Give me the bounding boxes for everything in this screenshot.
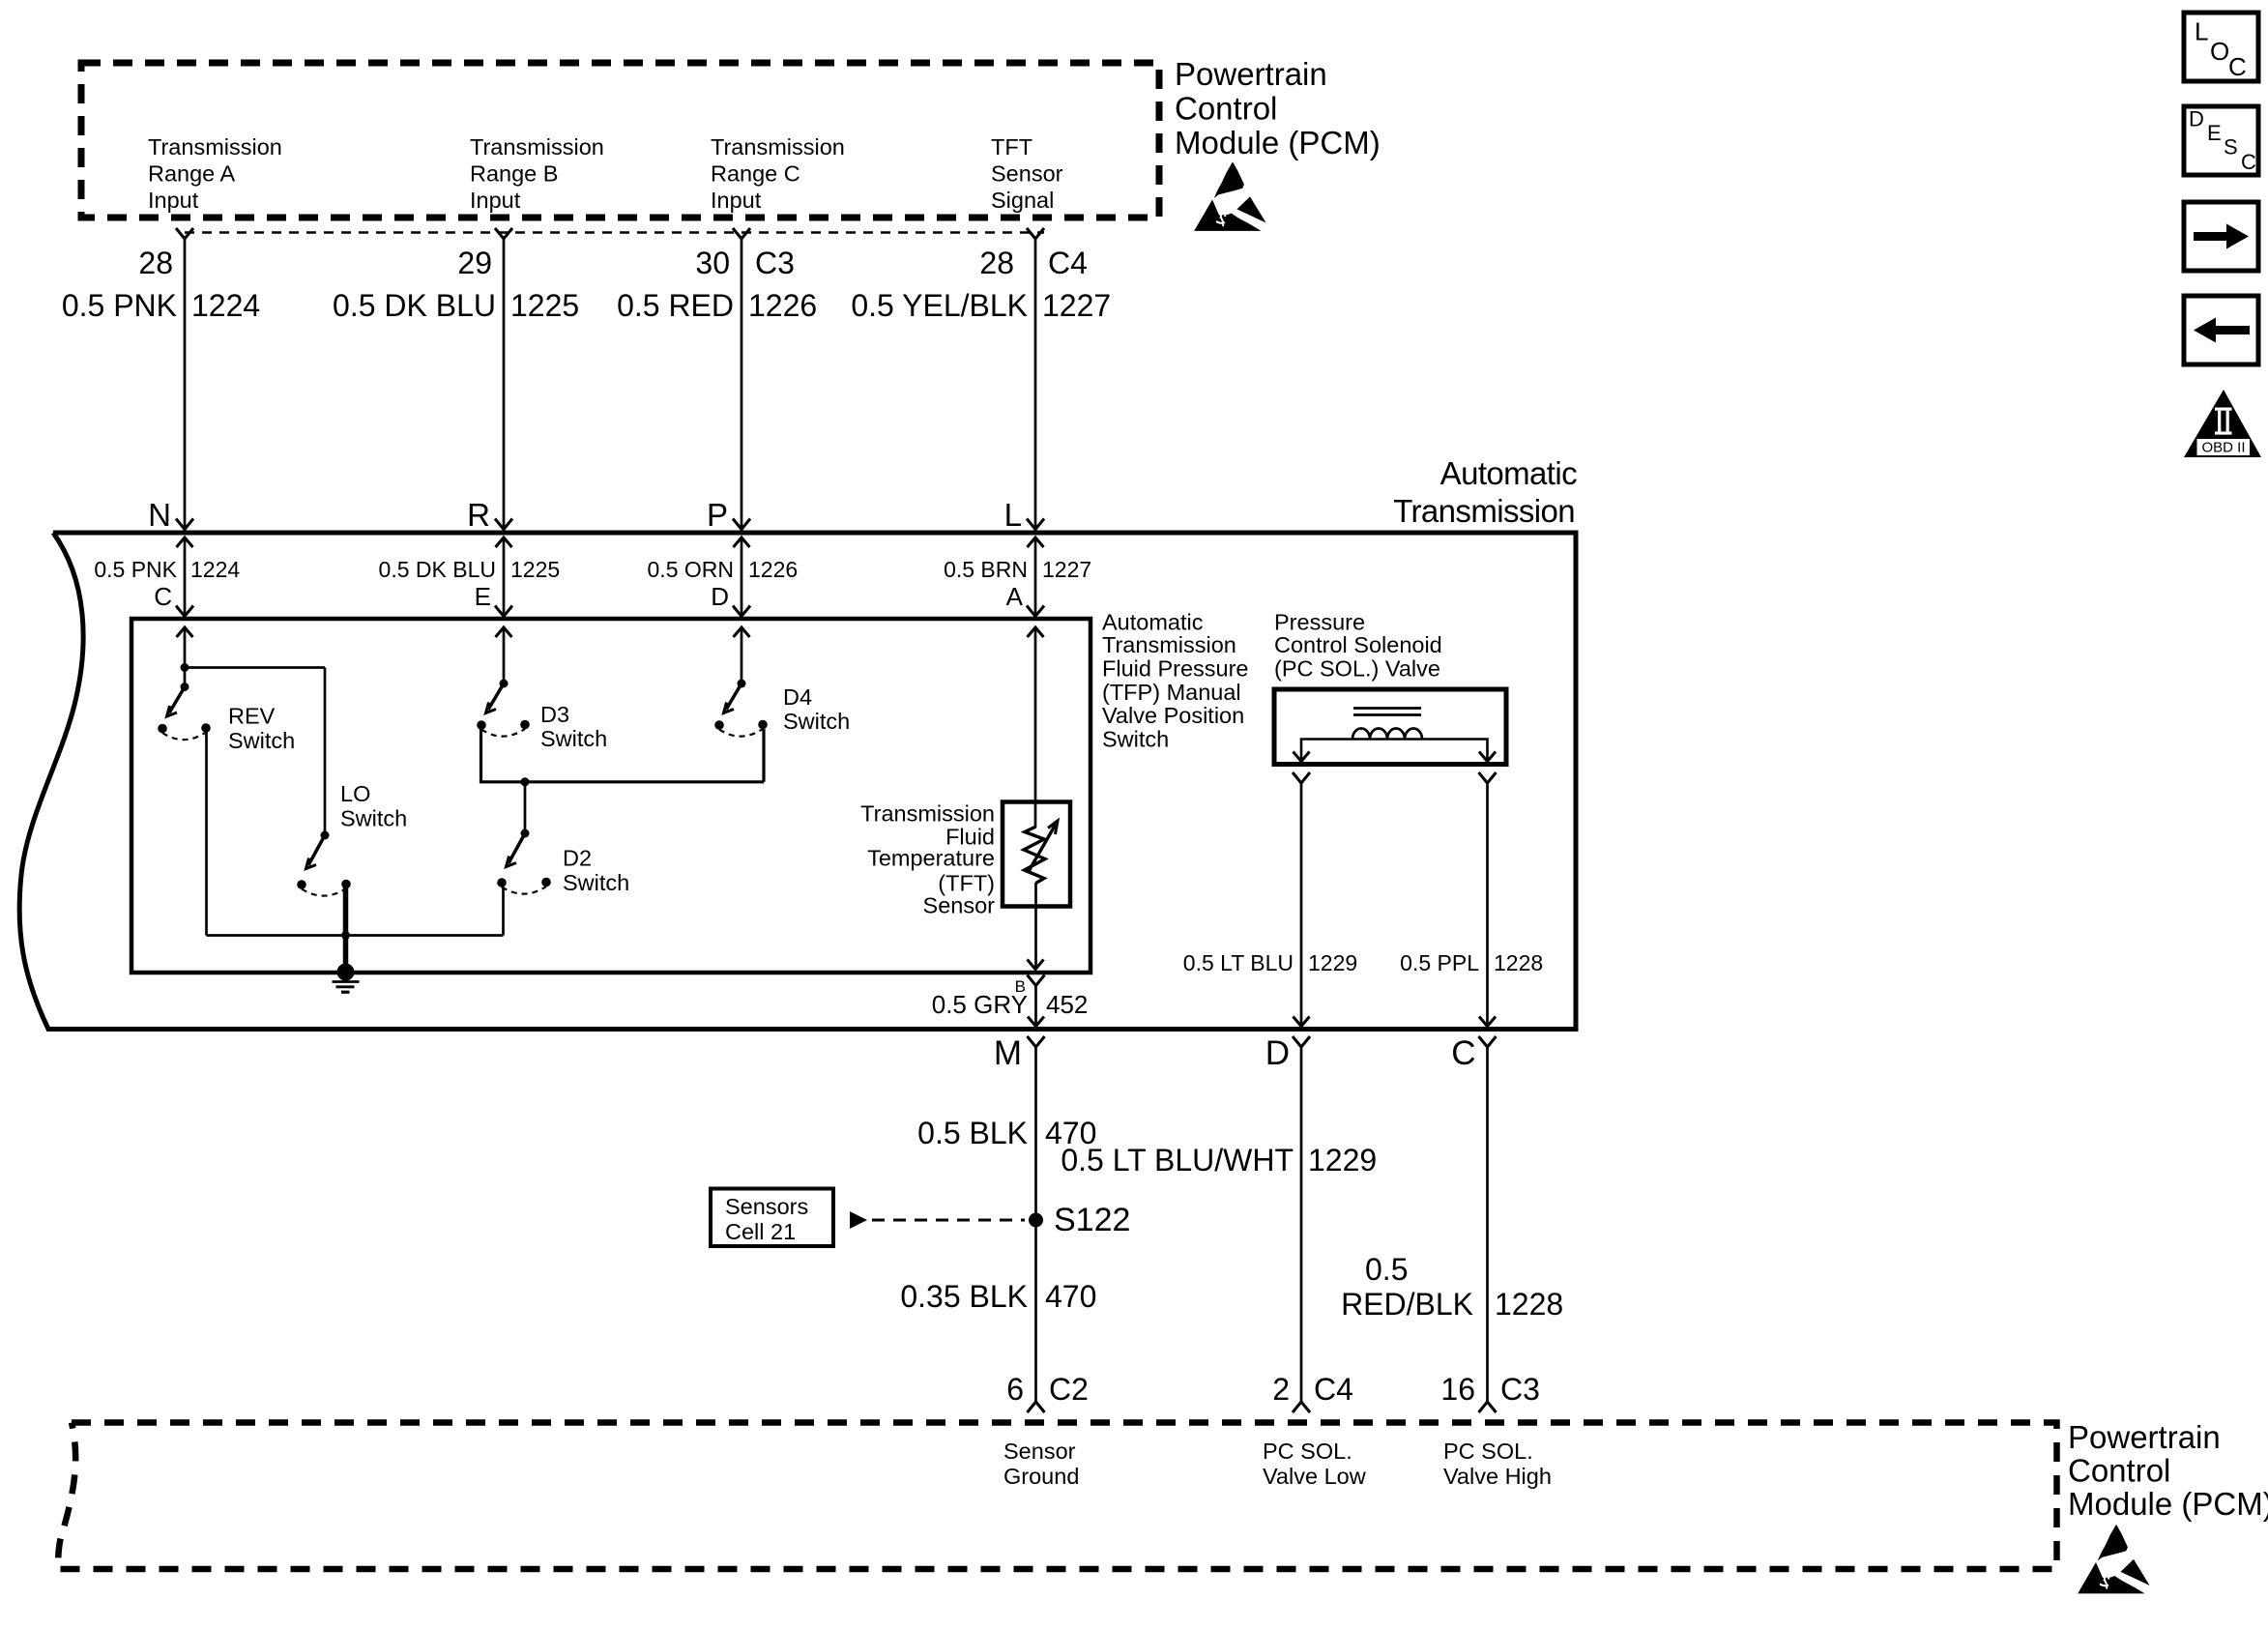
svg-text:Sensor: Sensor — [1003, 1439, 1076, 1464]
svg-text:C4: C4 — [1048, 246, 1088, 280]
svg-text:Transmission: Transmission — [470, 134, 604, 160]
wire B to transmission case exit — [1034, 986, 1037, 1027]
svg-text:452: 452 — [1046, 990, 1088, 1019]
svg-text:Valve Low: Valve Low — [1263, 1464, 1367, 1489]
svg-text:Fluid Pressure: Fluid Pressure — [1102, 656, 1249, 682]
svg-text:Valve Position: Valve Position — [1102, 703, 1244, 728]
svg-text:Module (PCM): Module (PCM) — [1175, 125, 1381, 160]
svg-text:0.5 ORN: 0.5 ORN — [648, 557, 734, 582]
svg-text:Control: Control — [1175, 91, 1277, 127]
pin M — [1028, 1036, 1045, 1047]
svg-text:N: N — [148, 497, 171, 533]
wire D3 output — [481, 729, 765, 782]
svg-text:Module (PCM): Module (PCM) — [2068, 1486, 2268, 1522]
Automatic Transmission box outline (torn left edge) — [19, 533, 1576, 1030]
svg-text:Range A: Range A — [148, 161, 235, 187]
svg-text:Transmission: Transmission — [148, 134, 282, 160]
back arrow icon — [2184, 296, 2258, 364]
svg-text:Automatic: Automatic — [1102, 610, 1204, 635]
svg-text:6: 6 — [1006, 1372, 1024, 1407]
svg-text:Transmission: Transmission — [1102, 632, 1236, 657]
wire common (REV to D2) — [207, 934, 504, 937]
connector rail (thin dashed) — [185, 231, 1044, 234]
svg-text:Valve High: Valve High — [1443, 1464, 1552, 1489]
wire A to TFT sensor — [1034, 627, 1037, 828]
svg-text:0.5 GRY: 0.5 GRY — [932, 990, 1028, 1019]
svg-text:C: C — [2228, 52, 2247, 81]
svg-text:0.5 RED: 0.5 RED — [617, 288, 734, 323]
wire branch to LO switch — [185, 666, 325, 669]
svg-text:1228: 1228 — [1494, 950, 1543, 975]
LO switch — [297, 831, 351, 896]
svg-text:Transmission: Transmission — [1393, 493, 1575, 529]
svg-text:Signal: Signal — [991, 188, 1054, 213]
svg-text:Input: Input — [711, 188, 762, 213]
svg-text:R: R — [467, 497, 490, 533]
wire LO to ground — [343, 887, 349, 971]
svg-text:0.5 PPL: 0.5 PPL — [1400, 950, 1479, 975]
svg-text:Temperature: Temperature — [867, 846, 995, 871]
svg-text:Range B: Range B — [470, 161, 558, 187]
solenoid coil L1 — [1352, 729, 1422, 740]
svg-text:Powertrain: Powertrain — [2068, 1419, 2221, 1455]
pin exits of solenoid valve — [1293, 772, 1310, 783]
svg-text:2: 2 — [1272, 1372, 1290, 1407]
svg-text:C: C — [154, 582, 172, 611]
svg-text:0.5 DK BLU: 0.5 DK BLU — [379, 557, 496, 582]
DESC icon — [2184, 106, 2258, 175]
svg-text:Switch: Switch — [563, 870, 629, 895]
svg-text:S: S — [2224, 135, 2238, 160]
pin C (case) — [1479, 1036, 1497, 1047]
PCM module box (dashed) — [81, 63, 1159, 218]
wire sensor ground — [1034, 1047, 1037, 1402]
svg-text:Range C: Range C — [711, 161, 800, 187]
svg-text:C4: C4 — [1314, 1372, 1353, 1407]
svg-text:D3: D3 — [540, 702, 569, 727]
wire PC SOL high (below) — [1486, 1047, 1489, 1402]
svg-text:LO: LO — [340, 781, 370, 806]
svg-text:C3: C3 — [755, 246, 795, 280]
svg-text:1229: 1229 — [1308, 1143, 1377, 1177]
D3 switch — [477, 680, 530, 737]
svg-text:0.5 YEL/BLK: 0.5 YEL/BLK — [851, 288, 1028, 323]
svg-text:Powertrain: Powertrain — [1175, 56, 1327, 92]
svg-text:M: M — [994, 1034, 1022, 1072]
node (branch to LO) — [181, 663, 189, 672]
wire 1224 (PCM to transmission) — [184, 239, 187, 533]
svg-text:C2: C2 — [1049, 1372, 1089, 1407]
svg-text:0.5: 0.5 — [1365, 1252, 1408, 1287]
svg-text:D: D — [2189, 107, 2204, 131]
wire REV output — [205, 732, 208, 936]
svg-text:REV: REV — [228, 704, 276, 729]
svg-text:0.5 PNK: 0.5 PNK — [62, 288, 177, 323]
D2 switch — [497, 829, 551, 894]
svg-text:Switch: Switch — [228, 728, 295, 753]
wire P inside box — [741, 538, 743, 617]
coil leads — [1301, 740, 1488, 761]
Sensors Cell 21 box — [711, 1189, 833, 1247]
svg-text:TFT: TFT — [991, 134, 1032, 160]
svg-text:1225: 1225 — [510, 557, 560, 582]
PCM module box (dashed, bottom) — [58, 1423, 2057, 1570]
svg-text:Cell 21: Cell 21 — [725, 1219, 796, 1244]
svg-text:(PC SOL.) Valve: (PC SOL.) Valve — [1274, 656, 1440, 682]
svg-text:1224: 1224 — [190, 557, 240, 582]
svg-text:(TFP) Manual: (TFP) Manual — [1102, 680, 1241, 705]
pin D (case) — [1293, 1036, 1310, 1047]
entry arrows inside TFP box — [177, 627, 193, 637]
ESD symbol (bottom PCM) — [2078, 1525, 2149, 1594]
pin B — [1028, 975, 1045, 986]
svg-text:28: 28 — [138, 246, 173, 280]
forward arrow icon — [2184, 202, 2258, 271]
svg-text:1226: 1226 — [748, 557, 798, 582]
LOC icon — [2184, 13, 2258, 81]
svg-text:D2: D2 — [563, 846, 592, 871]
splice S122 — [1029, 1213, 1043, 1228]
svg-text:0.5 LT BLU/WHT: 0.5 LT BLU/WHT — [1061, 1143, 1294, 1177]
svg-text:0.5 BLK: 0.5 BLK — [917, 1116, 1028, 1150]
svg-text:Switch: Switch — [340, 806, 407, 831]
svg-text:RED/BLK: RED/BLK — [1341, 1287, 1473, 1322]
wire P to D4 switch — [741, 627, 743, 683]
OBD II icon — [2184, 390, 2261, 457]
wire 1227 (PCM to transmission) — [1034, 239, 1037, 533]
svg-text:Input: Input — [470, 188, 521, 213]
connector pin 28 C4 (TFT signal) — [1027, 228, 1044, 239]
svg-text:470: 470 — [1045, 1279, 1096, 1314]
svg-text:C: C — [1451, 1034, 1475, 1072]
svg-text:Switch: Switch — [1102, 727, 1169, 752]
svg-text:D4: D4 — [783, 684, 812, 710]
svg-text:PC SOL.: PC SOL. — [1263, 1439, 1352, 1464]
wire E to D3 switch — [503, 627, 506, 683]
ground — [337, 964, 355, 981]
svg-text:Transmission: Transmission — [860, 801, 995, 827]
svg-text:30: 30 — [695, 246, 730, 280]
svg-text:Sensors: Sensors — [725, 1194, 808, 1219]
wire solenoid low — [1300, 783, 1303, 1027]
svg-text:Switch: Switch — [540, 726, 607, 751]
svg-text:Switch: Switch — [783, 709, 850, 734]
svg-text:E: E — [2207, 121, 2222, 145]
svg-text:0.5 LT BLU: 0.5 LT BLU — [1183, 950, 1294, 975]
svg-text:Automatic: Automatic — [1440, 455, 1577, 491]
D4 switch — [714, 680, 768, 737]
connector pin 30 C3 (Range C) — [733, 228, 750, 239]
svg-text:D: D — [711, 582, 729, 611]
svg-text:L: L — [2195, 17, 2208, 46]
svg-text:Sensor: Sensor — [923, 893, 996, 918]
svg-text:O: O — [2210, 37, 2229, 66]
TFT sensor (thermistor) — [1003, 802, 1070, 907]
svg-text:0.5 DK BLU: 0.5 DK BLU — [333, 288, 496, 323]
svg-text:A: A — [1006, 582, 1024, 611]
REV switch — [158, 683, 211, 740]
svg-text:C: C — [2241, 150, 2256, 174]
svg-text:D: D — [1265, 1034, 1290, 1072]
wire solenoid high — [1486, 783, 1489, 1027]
svg-text:OBD II: OBD II — [2201, 440, 2245, 456]
TFP manual valve position switch box — [131, 619, 1090, 973]
svg-text:1225: 1225 — [510, 288, 579, 323]
svg-text:1229: 1229 — [1308, 950, 1357, 975]
svg-text:1226: 1226 — [748, 288, 817, 323]
svg-text:P: P — [707, 497, 728, 533]
svg-text:16: 16 — [1440, 1372, 1475, 1407]
svg-text:Transmission: Transmission — [711, 134, 845, 160]
svg-text:0.5 PNK: 0.5 PNK — [94, 557, 177, 582]
svg-text:L: L — [1004, 497, 1022, 533]
svg-text:Sensor: Sensor — [991, 161, 1063, 187]
svg-text:1228: 1228 — [1495, 1287, 1563, 1322]
reference arrow — [850, 1211, 867, 1229]
svg-text:C3: C3 — [1500, 1372, 1540, 1407]
svg-text:S122: S122 — [1054, 1202, 1130, 1238]
svg-text:E: E — [475, 582, 491, 611]
svg-text:Ground: Ground — [1003, 1464, 1079, 1489]
node (D3/D4 junction to D2) — [521, 777, 530, 786]
wire 1226 (PCM to transmission) — [741, 239, 743, 533]
wire L inside box — [1034, 538, 1037, 617]
wire R inside box — [503, 538, 506, 617]
svg-text:28: 28 — [979, 246, 1014, 280]
node (common junction) — [341, 931, 350, 940]
PC solenoid valve box — [1274, 689, 1506, 765]
wire PC SOL low (below) — [1300, 1047, 1303, 1402]
svg-text:0.5 BRN: 0.5 BRN — [944, 557, 1028, 582]
wire 1225 (PCM to transmission) — [503, 239, 506, 533]
svg-text:29: 29 — [457, 246, 492, 280]
solenoid core bars — [1353, 707, 1421, 710]
wire junction to D2 switch — [524, 782, 527, 833]
svg-text:Pressure: Pressure — [1274, 610, 1365, 635]
svg-text:0.35 BLK: 0.35 BLK — [900, 1279, 1028, 1314]
connector pin 29 (Range B) — [495, 228, 512, 239]
svg-text:1224: 1224 — [191, 288, 260, 323]
svg-text:1227: 1227 — [1042, 557, 1091, 582]
ESD symbol (top PCM) — [1194, 161, 1265, 231]
arrow exiting TFP box — [1028, 960, 1044, 970]
svg-text:PC SOL.: PC SOL. — [1443, 1439, 1533, 1464]
svg-text:1227: 1227 — [1042, 288, 1111, 323]
svg-text:Input: Input — [148, 188, 199, 213]
connector pin 28 (Range A) — [176, 228, 193, 239]
wire D4 output — [762, 729, 765, 782]
dashed reference wire to S122 — [872, 1219, 1025, 1222]
svg-text:Control: Control — [2068, 1453, 2170, 1489]
svg-text:Control Solenoid: Control Solenoid — [1274, 632, 1442, 657]
wire N inside box — [184, 538, 187, 617]
wire D2 output — [502, 887, 505, 936]
wire C to REV switch — [184, 627, 187, 687]
